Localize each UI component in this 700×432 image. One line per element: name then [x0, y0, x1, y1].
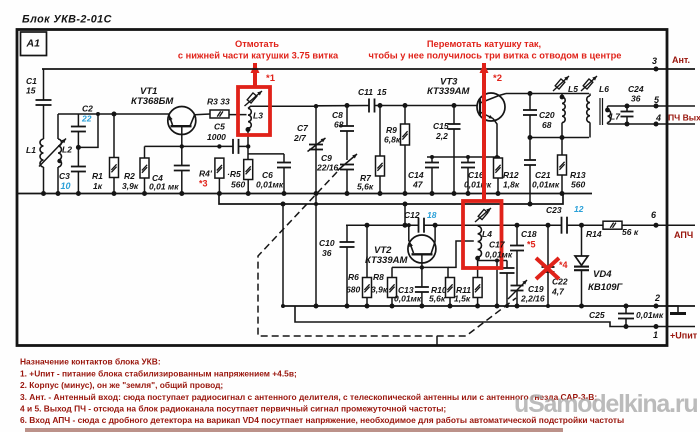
capacitor C13: [421, 267, 423, 287]
wire R3 to L3 tap: [229, 114, 247, 116]
svg-text:Назначение контактов блока УКВ: Назначение контактов блока УКВ:: [20, 357, 161, 367]
svg-text:R4': R4': [199, 169, 213, 179]
svg-text:680: 680: [346, 285, 360, 295]
svg-text:С17: С17: [489, 240, 506, 250]
svg-text:С22: С22: [552, 277, 568, 287]
svg-text:АПЧ: АПЧ: [674, 230, 693, 240]
vertical wire tank to lower section: [315, 106, 317, 306]
base net wire with series C5: [145, 145, 234, 147]
svg-text:С19: С19: [528, 284, 544, 294]
capacitor C24: [626, 106, 628, 112]
svg-text:с нижней части катушки 3.75 ви: с нижней части катушки 3.75 витка: [178, 51, 339, 61]
svg-text:0,01мк: 0,01мк: [256, 180, 284, 190]
VT3 collector rail: [506, 93, 589, 95]
wire to pin 6 with R14: [567, 224, 603, 226]
middle rail VT3 base: [316, 105, 369, 107]
wire VT1 collector to R3: [195, 113, 210, 116]
svg-text:Отмотать: Отмотать: [235, 39, 279, 49]
resistor R9: [404, 106, 406, 125]
svg-text:0,01 мк: 0,01 мк: [149, 182, 179, 192]
svg-text:3,9к: 3,9к: [371, 285, 388, 295]
svg-text:КТ339АМ: КТ339АМ: [427, 86, 470, 97]
svg-text:С18: С18: [521, 229, 537, 239]
svg-text:С5: С5: [214, 122, 225, 132]
svg-text:R3 33: R3 33: [207, 97, 230, 107]
svg-text:ПЧ Вых: ПЧ Вых: [668, 113, 700, 123]
trimmer capacitor C9: [340, 164, 354, 166]
svg-text:560: 560: [231, 180, 245, 190]
varicap VD4: [581, 225, 583, 256]
resistor R8: [391, 267, 393, 277]
outer block border: [17, 30, 667, 346]
svg-text:С8: С8: [332, 110, 343, 120]
resistor R5: [244, 160, 253, 180]
svg-text:Блок УКВ-2-01С: Блок УКВ-2-01С: [22, 14, 112, 26]
resistor R3: [210, 110, 229, 118]
capacitor C3: [71, 166, 86, 168]
svg-text:2,2: 2,2: [435, 131, 448, 141]
capacitor C25: [625, 306, 627, 314]
svg-text:4: 4: [655, 113, 661, 123]
wire VT3 emitter: [493, 119, 497, 158]
svg-text:12: 12: [574, 204, 584, 214]
cropped text band at bottom edge: [25, 428, 563, 432]
svg-text:L6: L6: [599, 84, 609, 94]
L4 bottom wire to ground branch: [478, 260, 507, 262]
capacitor C5 series: [232, 139, 234, 154]
svg-text:*5: *5: [527, 240, 536, 250]
capacitor C4: [181, 146, 183, 165]
capacitor C22 (crossed out): [547, 225, 549, 267]
svg-text:С12: С12: [404, 210, 420, 220]
inductor L3: [248, 109, 251, 129]
watermark: [514, 390, 697, 418]
ground bus 1: [17, 193, 592, 195]
trimmer capacitor C19: [511, 285, 524, 287]
pin1 junction: [654, 324, 659, 329]
svg-text:L1: L1: [26, 145, 36, 155]
svg-text:2,2/16: 2,2/16: [520, 294, 545, 304]
inductor L6: [589, 94, 591, 97]
wire C20 L5 bottom: [530, 137, 589, 139]
oscillator rail: [346, 224, 419, 226]
svg-text:L4: L4: [482, 229, 492, 239]
svg-text:R14: R14: [586, 229, 602, 239]
capacitor C6: [248, 153, 284, 155]
ground stub to border: [436, 336, 438, 346]
svg-text:3. Ант. - Антенный вход: сюда: 3. Ант. - Антенный вход: сюда поступает …: [20, 392, 597, 402]
svg-text:С24: С24: [628, 84, 644, 94]
wire base VT1: [58, 113, 169, 115]
svg-text:*1: *1: [266, 73, 276, 84]
svg-text:R2: R2: [124, 171, 135, 181]
resistor R6: [366, 225, 368, 277]
L6 adjustable core: [583, 79, 593, 89]
svg-text:22/16: 22/16: [316, 163, 339, 173]
capacitor C10: [346, 225, 348, 242]
svg-text:1: 1: [653, 330, 658, 340]
capacitor C17 symbol: [506, 261, 508, 269]
L5 adjustable core: [555, 79, 565, 89]
svg-text:С14: С14: [408, 170, 424, 180]
svg-text:С25: С25: [589, 310, 605, 320]
svg-text:6,8к: 6,8к: [384, 135, 401, 145]
svg-text:R13: R13: [570, 170, 586, 180]
svg-text:uSamodelkina.ru: uSamodelkina.ru: [514, 390, 697, 418]
resistor R11: [473, 278, 482, 298]
svg-text:С23: С23: [546, 205, 562, 215]
capacitor C12 series: [418, 218, 420, 233]
designator box A1: [21, 32, 47, 56]
svg-text:С11: С11: [358, 87, 373, 97]
node R1 top: [112, 112, 117, 117]
capacitor C23 series: [561, 217, 563, 234]
capacitor C14: [431, 157, 433, 163]
red box around L3: [238, 87, 270, 135]
svg-text:С21: С21: [535, 170, 551, 180]
svg-text:С10: С10: [319, 238, 335, 248]
svg-text:L2: L2: [62, 145, 72, 155]
antenna wire (pin 3 net): [42, 68, 695, 70]
capacitor C20: [529, 94, 531, 111]
svg-text:1000: 1000: [207, 132, 226, 142]
svg-text:0,01мк: 0,01мк: [532, 180, 560, 190]
svg-text:4 и 5. Выход ПЧ - отсюда на бл: 4 и 5. Выход ПЧ - отсюда на блок радиока…: [20, 404, 446, 414]
node bus1 L2: [56, 191, 61, 196]
svg-text:R12: R12: [503, 170, 519, 180]
wire C2-C3 tap: [78, 114, 98, 147]
svg-text:R6: R6: [348, 272, 359, 282]
capacitor C11 series: [368, 99, 370, 113]
wire VT1 base down: [181, 126, 183, 146]
svg-text:R8: R8: [373, 272, 384, 282]
red arrow to L4 through schematic: [482, 63, 486, 201]
svg-text:2. Корпус (минус), он же "земл: 2. Корпус (минус), он же "земля", общий …: [20, 380, 223, 390]
svg-text:*3: *3: [199, 179, 208, 189]
inductor L7: [607, 106, 609, 109]
svg-text:47: 47: [412, 180, 424, 190]
inductor L2: [57, 114, 59, 139]
svg-text:10: 10: [61, 181, 71, 191]
svg-text:С6: С6: [262, 170, 273, 180]
svg-text:R1: R1: [92, 171, 103, 181]
resistor R12: [497, 157, 499, 158]
svg-text:0,01мк: 0,01мк: [394, 294, 422, 304]
svg-text:VD4: VD4: [593, 269, 612, 280]
transformer core L6-L7: [599, 98, 601, 125]
wire VT2 base down: [421, 254, 423, 267]
svg-text:·R5: ·R5: [227, 169, 241, 179]
dashed tuning-gang link C9-C19: [258, 172, 516, 336]
resistor R2: [144, 146, 146, 158]
svg-text:С3: С3: [59, 171, 70, 181]
inductor L1: [40, 139, 44, 167]
inductor L4: [477, 224, 479, 227]
svg-text:С7: С7: [297, 123, 309, 133]
svg-text:КВ109Г: КВ109Г: [588, 282, 624, 293]
svg-text:КТ339АМ: КТ339АМ: [365, 255, 408, 266]
svg-text:2/7: 2/7: [293, 133, 307, 143]
svg-text:1,5к: 1,5к: [454, 294, 471, 304]
svg-text:R9: R9: [386, 125, 397, 135]
capacitor C2: [77, 114, 79, 127]
svg-text:L7: L7: [610, 112, 621, 122]
svg-text:L3: L3: [253, 111, 263, 121]
svg-text:15: 15: [377, 87, 387, 97]
svg-text:36: 36: [322, 248, 332, 258]
L4 centre tap wire: [448, 241, 474, 267]
capacitor C16: [467, 157, 469, 163]
svg-text:18: 18: [427, 210, 437, 220]
svg-text:36: 36: [631, 94, 641, 104]
svg-text:5,6к: 5,6к: [357, 182, 374, 192]
svg-text:68: 68: [334, 120, 344, 130]
svg-text:+Uпит: +Uпит: [670, 331, 698, 341]
L4 adjustable core: [478, 209, 488, 219]
ground bus 3 (pin 2 net): [283, 305, 695, 307]
capacitor C15: [453, 106, 455, 125]
svg-text:1,8к: 1,8к: [503, 180, 520, 190]
svg-text:КТ368БМ: КТ368БМ: [131, 96, 174, 107]
svg-text:С20: С20: [539, 110, 555, 120]
svg-text:С9: С9: [321, 153, 332, 163]
pin2 junction: [654, 304, 659, 309]
svg-text:*2: *2: [493, 73, 502, 84]
transistor VT1 КТ368БМ: [168, 107, 196, 135]
wire pin 5: [608, 105, 696, 107]
svg-text:2: 2: [654, 293, 660, 303]
L3 adjustable core: [247, 93, 257, 103]
svg-text:0,01мк: 0,01мк: [464, 180, 492, 190]
svg-text:С15: С15: [433, 121, 449, 131]
svg-text:56 к: 56 к: [622, 227, 639, 237]
left column of oscillator: [282, 204, 284, 306]
svg-text:22: 22: [81, 114, 92, 124]
svg-text:А1: А1: [26, 38, 41, 50]
svg-text:чтобы у нее получилось три вит: чтобы у нее получилось три витка с отвод…: [369, 51, 622, 61]
ground symbol at pin 2: [667, 306, 678, 313]
svg-text:15: 15: [26, 86, 36, 96]
svg-text:3: 3: [652, 56, 657, 66]
svg-text:68: 68: [542, 120, 552, 130]
red arrow to L3: [253, 63, 257, 87]
trimmer capacitor C7: [309, 144, 323, 146]
svg-text:С1: С1: [26, 76, 37, 86]
capacitor C1: [43, 69, 45, 100]
red cross over C22: [536, 258, 559, 279]
resistor R4: [215, 158, 224, 178]
resistor R13: [561, 138, 563, 156]
svg-text:Перемотать катушку так,: Перемотать катушку так,: [427, 39, 541, 49]
variable tuning arrow through L1 L2: [39, 139, 66, 167]
supply wire (pin 1 net): [295, 306, 695, 327]
svg-text:5,6к: 5,6к: [429, 294, 446, 304]
svg-text:L5: L5: [568, 84, 578, 94]
svg-text:3,9к: 3,9к: [122, 181, 139, 191]
node bus2 to rail: [404, 204, 406, 225]
svg-text:С16: С16: [468, 170, 484, 180]
resistor R1: [113, 114, 115, 158]
transistor VT2 КТ339АМ: [408, 235, 436, 263]
svg-text:0,01мк: 0,01мк: [636, 310, 664, 320]
bus 2: [219, 194, 563, 205]
svg-text:Ант.: Ант.: [672, 55, 690, 65]
transistor VT3 КТ339АМ: [477, 93, 505, 121]
resistor R14: [603, 221, 622, 229]
red box around L4: [463, 201, 502, 268]
svg-text:С2: С2: [82, 104, 93, 114]
resistor R10: [446, 278, 455, 298]
svg-text:*4: *4: [559, 260, 568, 270]
svg-text:1. +Uпит - питание блока стаби: 1. +Uпит - питание блока стабилизированн…: [20, 368, 297, 378]
capacitor C21: [529, 138, 531, 161]
svg-text:4,7: 4,7: [551, 287, 565, 297]
svg-text:1к: 1к: [93, 181, 103, 191]
resistor R7: [379, 106, 381, 157]
inductor L5: [561, 94, 563, 97]
capacitor C8: [346, 106, 348, 127]
wire pin 4: [608, 123, 696, 125]
capacitor C18: [516, 225, 518, 245]
svg-text:0,01мк: 0,01мк: [485, 250, 513, 260]
svg-text:560: 560: [571, 180, 585, 190]
